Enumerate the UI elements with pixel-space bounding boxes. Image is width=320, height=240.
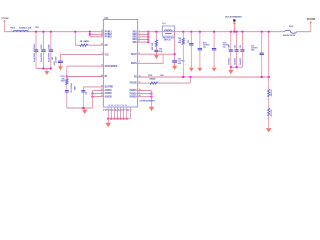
- svg-text:PGND3: PGND3: [130, 96, 138, 98]
- svg-text:SYNC/MODE: SYNC/MODE: [105, 66, 118, 68]
- svg-text:R100 1K: R100 1K: [271, 109, 273, 116]
- svg-text:FB: FB: [134, 77, 137, 79]
- svg-text:R88: R88: [178, 38, 181, 40]
- svg-text:R89 10R: R89 10R: [152, 42, 154, 50]
- svg-text:4R7/7.3A: 4R7/7.3A: [164, 39, 171, 42]
- svg-text:10: 10: [101, 44, 103, 46]
- svg-text:10uF/25V: 10uF/25V: [229, 57, 231, 65]
- svg-text:BOOT: BOOT: [131, 54, 137, 56]
- svg-text:20: 20: [101, 89, 103, 91]
- svg-text:0805: 0805: [35, 27, 38, 29]
- svg-text:C92: C92: [240, 45, 242, 48]
- svg-text:BIAS: BIAS: [131, 62, 137, 65]
- svg-text:9: 9: [102, 53, 103, 55]
- svg-text:U10: U10: [104, 18, 108, 20]
- svg-text:0603: 0603: [150, 78, 156, 80]
- svg-text:41 40 39 38 37 36 35: 41 40 39 38 37 36 35: [108, 105, 128, 107]
- svg-text:EC16: EC16: [203, 42, 207, 44]
- svg-text:Cap: Cap: [223, 47, 226, 49]
- svg-text:21: 21: [101, 92, 103, 94]
- svg-text:VCC24V: VCC24V: [2, 17, 10, 20]
- svg-text:PVIN3: PVIN3: [105, 37, 113, 39]
- svg-text:R99 10K: R99 10K: [271, 89, 273, 96]
- svg-text:18: 18: [101, 75, 103, 77]
- svg-text:100uF/6V: 100uF/6V: [203, 44, 210, 46]
- svg-text:15: 15: [101, 35, 103, 37]
- svg-text:C95: C95: [188, 40, 190, 43]
- svg-text:220R/1.2A: 220R/1.2A: [19, 27, 32, 30]
- svg-text:SS/TRK: SS/TRK: [105, 87, 114, 89]
- svg-text:22uF/50V: 22uF/50V: [34, 52, 36, 62]
- svg-text:19: 19: [101, 85, 103, 87]
- svg-text:EC16: EC16: [223, 42, 227, 44]
- svg-text:PGOOD: PGOOD: [130, 83, 137, 85]
- svg-text:C93: C93: [86, 92, 88, 95]
- svg-text:VCC3V3/SD3V3: VCC3V3/SD3V3: [225, 17, 243, 19]
- svg-text:17: 17: [101, 65, 103, 67]
- svg-text:EN: EN: [105, 45, 108, 47]
- svg-text:TPS543620RPYR: TPS543620RPYR: [103, 108, 130, 112]
- svg-text:AGND3: AGND3: [105, 95, 113, 98]
- svg-text:UNTRIGGER/FT: UNTRIGGER/FT: [140, 100, 156, 102]
- svg-text:PGND2: PGND2: [130, 93, 138, 95]
- svg-text:22uF/50V: 22uF/50V: [49, 52, 51, 62]
- svg-text:0.1uF/25V: 0.1uF/25V: [178, 61, 185, 63]
- svg-text:AGND2: AGND2: [105, 92, 113, 95]
- svg-text:VCC3V3: VCC3V3: [307, 19, 316, 21]
- svg-text:VCC: VCC: [105, 54, 110, 56]
- svg-text:R75: R75: [148, 75, 152, 77]
- svg-text:C89: C89: [178, 58, 181, 60]
- svg-text:0402: 0402: [73, 86, 76, 90]
- svg-text:2A/DC/63V: 2A/DC/63V: [283, 34, 296, 37]
- svg-text:0402: 0402: [61, 80, 65, 83]
- svg-text:7: 7: [139, 61, 140, 63]
- svg-text:10uF/25V: 10uF/25V: [234, 57, 236, 65]
- svg-text:C92: C92: [229, 45, 231, 48]
- svg-text:Cap: Cap: [203, 47, 206, 49]
- svg-text:13: 13: [101, 30, 103, 32]
- svg-text:SW5: SW5: [132, 42, 137, 44]
- svg-text:22uF/50V: 22uF/50V: [41, 52, 43, 62]
- svg-text:10uF/50V: 10uF/50V: [251, 47, 258, 49]
- svg-text:100uF/6V: 100uF/6V: [223, 44, 230, 46]
- svg-text:22: 22: [101, 95, 103, 97]
- svg-text:471p: 471p: [159, 50, 163, 53]
- svg-text:AGND1: AGND1: [105, 89, 113, 92]
- svg-text:10uF/25V: 10uF/25V: [240, 57, 242, 65]
- svg-text:C92: C92: [234, 45, 236, 48]
- svg-text:SW4: SW4: [132, 38, 137, 41]
- svg-text:L10: L10: [162, 23, 165, 25]
- svg-text:PGND1: PGND1: [130, 90, 138, 92]
- svg-text:1uF/25V: 1uF/25V: [56, 56, 58, 64]
- svg-text:C91 2200pF: C91 2200pF: [71, 82, 73, 93]
- svg-text:C87: C87: [52, 57, 54, 60]
